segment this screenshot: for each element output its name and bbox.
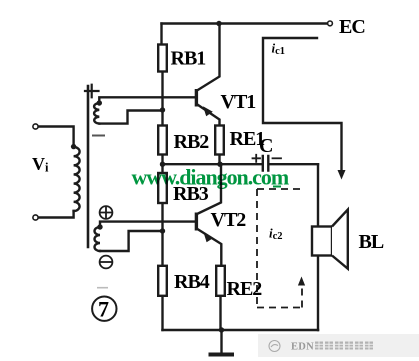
svg-text:RB4: RB4	[174, 271, 210, 293]
svg-text:www.diangon.com: www.diangon.com	[132, 165, 289, 190]
svg-text:EDN: EDN	[291, 342, 314, 353]
svg-text:RB2: RB2	[174, 131, 210, 153]
svg-text:VT2: VT2	[211, 209, 247, 231]
svg-text:RB1: RB1	[171, 48, 206, 70]
svg-text:EC: EC	[339, 16, 365, 38]
svg-text:RE2: RE2	[227, 278, 263, 300]
svg-text:C: C	[259, 135, 272, 157]
svg-text:BL: BL	[359, 231, 384, 253]
svg-text:VT1: VT1	[221, 91, 256, 113]
svg-text:7: 7	[98, 297, 109, 322]
